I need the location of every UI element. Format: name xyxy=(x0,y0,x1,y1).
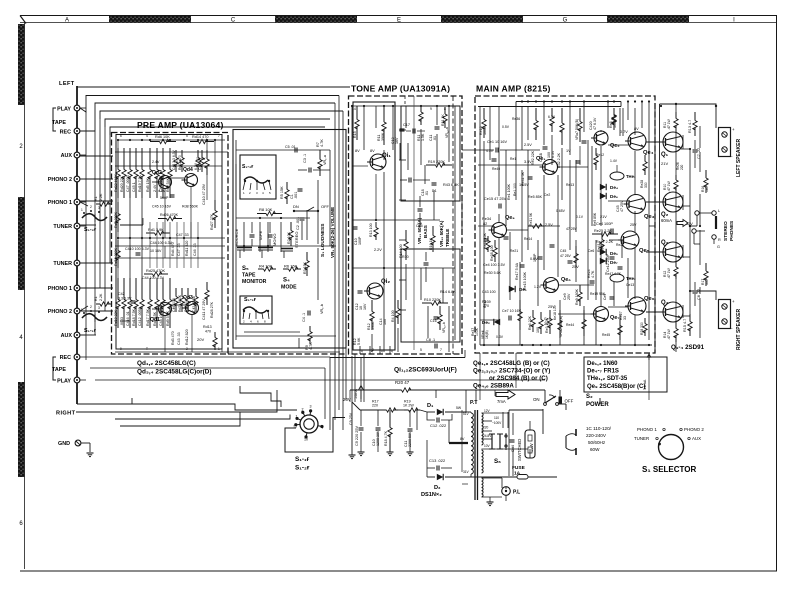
svg-text:Re40: Re40 xyxy=(492,167,500,171)
svg-text:OFF: OFF xyxy=(565,399,574,404)
preamp component C49 100P xyxy=(162,148,164,170)
svg-text:PHONO 2: PHONO 2 xyxy=(48,177,72,183)
wire bus top loop 5 xyxy=(105,119,330,127)
svg-text:+: + xyxy=(732,127,735,132)
svg-text:VR₁₂-b: VR₁₂-b xyxy=(442,322,446,333)
svg-text:4.7K: 4.7K xyxy=(591,270,595,278)
svg-text:R32 2.2K: R32 2.2K xyxy=(557,152,561,168)
svg-text:PHONES: PHONES xyxy=(729,220,735,241)
svg-text:Re17 5.6A: Re17 5.6A xyxy=(515,262,519,280)
svg-text:R6 15K: R6 15K xyxy=(284,264,298,269)
main junction dots xyxy=(521,100,523,102)
svg-text:DS1N×₂: DS1N×₂ xyxy=(421,492,442,498)
transformer secondary taps xyxy=(482,412,510,414)
bottom interconnect verticals xyxy=(329,357,331,430)
svg-text:Rd15 220K: Rd15 220K xyxy=(114,247,118,266)
rotary wafer S1 outer ring xyxy=(300,415,318,433)
svg-text:De₇: De₇ xyxy=(610,260,618,265)
svg-text:2.4V: 2.4V xyxy=(153,184,157,192)
svg-text:Re33: Re33 xyxy=(483,300,487,308)
main bottom rail xyxy=(480,344,652,346)
svg-text:Re36: Re36 xyxy=(512,117,520,121)
switch S6 contacts xyxy=(491,434,493,449)
svg-text:AUX: AUX xyxy=(692,436,701,441)
transistor Qd2 xyxy=(159,176,172,189)
wire to right speaker xyxy=(690,291,716,300)
svg-text:Rd3 470: Rd3 470 xyxy=(171,331,175,345)
svg-text:2.2V: 2.2V xyxy=(374,248,382,252)
svg-text:C42 .0058: C42 .0058 xyxy=(192,296,196,312)
right speaker terminal block xyxy=(719,300,731,329)
svg-text:C9 220 25V: C9 220 25V xyxy=(355,425,359,446)
svg-text:.47 1W: .47 1W xyxy=(667,118,671,130)
svg-text:.0033: .0033 xyxy=(120,317,124,326)
svg-text:1: 1 xyxy=(81,208,83,212)
svg-text:REC: REC xyxy=(60,130,71,136)
main amp scatter caps xyxy=(492,158,497,160)
switch S1-2f input wiper xyxy=(82,214,107,221)
switch S1-1f input wiper xyxy=(82,314,107,321)
input terminal AUX xyxy=(74,332,80,338)
left ruler hatch block 3 xyxy=(18,382,25,477)
svg-text:Qe₉: Qe₉ xyxy=(505,215,515,221)
svg-text:D₁: D₁ xyxy=(427,403,434,409)
main amp inner wires xyxy=(515,107,517,201)
input terminal PLAY xyxy=(74,105,80,111)
svg-text:De₄: De₄ xyxy=(610,185,618,190)
svg-text:0.3V: 0.3V xyxy=(496,335,504,339)
thermistor THe1 xyxy=(610,172,624,180)
svg-text:Ce2: Ce2 xyxy=(544,193,550,197)
transistor Qe6 xyxy=(628,297,646,315)
svg-text:R28 330: R28 330 xyxy=(640,322,644,335)
svg-text:REC: REC xyxy=(60,355,71,361)
svg-text:Qd2: Qd2 xyxy=(152,170,162,176)
svg-text:Re22: Re22 xyxy=(616,243,624,247)
switchbox extra parts xyxy=(290,222,292,231)
svg-text:or 2SC984 (B) or (C): or 2SC984 (B) or (C) xyxy=(489,375,548,382)
svg-text:3: 3 xyxy=(98,206,100,210)
svg-text:Qe₁,₈ 2SC458LG (B) or (C): Qe₁,₈ 2SC458LG (B) or (C) xyxy=(473,360,550,367)
input terminal REC xyxy=(74,354,80,360)
svg-text:Re1 100K: Re1 100K xyxy=(507,183,511,200)
svg-text:MODE: MODE xyxy=(281,285,297,291)
wire bus bottom loop 3 xyxy=(115,415,290,420)
svg-text:R4 10K: R4 10K xyxy=(259,264,273,269)
diode list box xyxy=(584,357,667,392)
svg-text:R5 15K: R5 15K xyxy=(280,186,284,199)
svg-text:C412 .0058: C412 .0058 xyxy=(138,307,142,326)
svg-text:TAPE: TAPE xyxy=(258,231,263,241)
svg-text:C47 .33: C47 .33 xyxy=(177,243,181,256)
svg-text:R1: R1 xyxy=(94,196,98,201)
svg-text:Qe₅: Qe₅ xyxy=(639,248,650,254)
svg-text:2.2K: 2.2K xyxy=(99,193,103,201)
input terminal PHONO 1 xyxy=(74,199,80,205)
svg-text:Q₃: Q₃ xyxy=(661,240,669,246)
svg-text:Rd21 680K: Rd21 680K xyxy=(178,294,182,312)
preamp lower component C416 .01 xyxy=(129,278,131,300)
svg-text:R10: R10 xyxy=(402,255,409,259)
main right rail xyxy=(648,102,650,341)
svg-text:2: 2 xyxy=(90,305,92,309)
tone right section extra parts xyxy=(408,178,410,183)
svg-text:8V: 8V xyxy=(355,149,360,153)
rotary wafer pins xyxy=(309,411,311,415)
MAIN AMP dashed box xyxy=(475,96,655,353)
svg-text:Qd₁,₂ 2SC458LG(C): Qd₁,₂ 2SC458LG(C) xyxy=(137,360,196,367)
svg-text:51V: 51V xyxy=(463,412,470,416)
resistor R14 4.7 bottom xyxy=(689,314,691,322)
selector knob circle xyxy=(659,435,684,460)
svg-text:Qi₁,₂2SC693UᴏrU(F): Qi₁,₂2SC693UᴏrU(F) xyxy=(394,367,457,374)
svg-text:R8 10K: R8 10K xyxy=(259,207,273,212)
svg-text:A: A xyxy=(65,17,69,23)
svg-text:1.2V: 1.2V xyxy=(534,285,542,289)
svg-text:R10 220K: R10 220K xyxy=(424,298,441,302)
svg-text:24.8V: 24.8V xyxy=(483,434,492,438)
svg-text:4: 4 xyxy=(371,350,373,354)
tone amp top rail xyxy=(352,105,460,107)
svg-text:Rd19 22K: Rd19 22K xyxy=(114,309,118,326)
svg-text:4.3V: 4.3V xyxy=(486,149,494,153)
svg-text:S₁ SELECTOR: S₁ SELECTOR xyxy=(642,465,697,474)
svg-text:STEREO: STEREO xyxy=(294,232,299,248)
transistor Qe7 xyxy=(594,307,609,322)
svg-text:220: 220 xyxy=(680,164,684,170)
svg-text:Re44: Re44 xyxy=(566,323,574,327)
tone mid dashed divider xyxy=(404,96,406,106)
svg-text:.001: .001 xyxy=(294,192,298,199)
svg-text:Ce9: Ce9 xyxy=(603,294,607,300)
PRE AMP dashed bottom extension xyxy=(228,353,346,355)
svg-text:Re31 5K: Re31 5K xyxy=(529,212,533,226)
svg-text:220-240V: 220-240V xyxy=(586,433,607,438)
pilot lamp wires xyxy=(482,477,503,479)
collector resistor R12 .47 1W xyxy=(675,262,677,267)
rotary wafer S1 inner ring xyxy=(304,419,314,429)
resistor R11 390K tone xyxy=(383,106,385,122)
svg-text:Qi₂: Qi₂ xyxy=(381,279,390,285)
left ruler hatch block 2 xyxy=(18,197,25,290)
svg-text:R20 47: R20 47 xyxy=(395,380,410,385)
main rail right edge wires xyxy=(654,104,656,352)
diode De7 xyxy=(600,258,606,264)
svg-text:R14 6.8K: R14 6.8K xyxy=(440,290,456,294)
power switch wires xyxy=(565,404,567,410)
tone inner wires xyxy=(352,219,440,221)
svg-text:S₁-₁ғ: S₁-₁ғ xyxy=(84,328,97,334)
tone dashed inner divider xyxy=(452,96,454,354)
transistor Qi1 xyxy=(370,154,386,170)
svg-text:12V: 12V xyxy=(484,409,491,413)
svg-text:S₁-₂ғ: S₁-₂ғ xyxy=(84,227,97,233)
svg-text:RIGHT SPEAKER: RIGHT SPEAKER xyxy=(736,308,742,350)
switch box inner wires xyxy=(236,245,336,247)
svg-text:C44 100 6.3V: C44 100 6.3V xyxy=(150,241,173,245)
svg-text:T: T xyxy=(146,347,148,351)
PRE AMP dashed box xyxy=(112,133,229,355)
svg-text:3.3 6.3V: 3.3 6.3V xyxy=(118,297,132,301)
svg-text:R15 4.7: R15 4.7 xyxy=(683,319,687,332)
svg-text:PHONO 1: PHONO 1 xyxy=(48,286,72,292)
wire bus bottom loop 2 xyxy=(76,390,277,412)
svg-text:50/60Hz: 50/60Hz xyxy=(588,440,606,445)
svg-text:Qe₂: Qe₂ xyxy=(610,143,620,149)
svg-text:TONE AMP (UA13091A): TONE AMP (UA13091A) xyxy=(351,84,450,94)
corner diagonal xyxy=(20,16,26,24)
svg-text:R43 6.8K: R43 6.8K xyxy=(443,183,459,187)
svg-text:4: 4 xyxy=(391,350,393,354)
svg-text:PLAY: PLAY xyxy=(57,379,71,385)
preamp lower component Rd18 7.5K xyxy=(135,278,137,300)
thermistor THe2 xyxy=(610,274,624,282)
svg-text:2.4V: 2.4V xyxy=(152,160,160,164)
svg-text:P.T: P.T xyxy=(470,400,478,406)
svg-text:1K(B): 1K(B) xyxy=(485,330,489,339)
svg-text:S₂: S₂ xyxy=(586,394,593,400)
svg-text:THe₁,₂ SDT-35: THe₁,₂ SDT-35 xyxy=(587,376,628,382)
svg-text:Re15 100K: Re15 100K xyxy=(523,271,527,290)
svg-text:1: 1 xyxy=(218,347,220,351)
input terminal TUNER xyxy=(74,223,80,229)
switch S1-2f contacts xyxy=(83,212,85,214)
svg-text:3: 3 xyxy=(98,306,100,310)
svg-text:25V: 25V xyxy=(630,223,637,227)
wire main amp to power xyxy=(479,353,481,400)
switch sub-box S1-2f xyxy=(240,155,276,199)
svg-text:−: − xyxy=(730,154,733,159)
tone IC pin stubs xyxy=(359,346,361,354)
input terminal PHONO 1 xyxy=(74,285,80,291)
switch loudness contacts xyxy=(294,210,318,212)
svg-text:THe₁: THe₁ xyxy=(626,174,636,179)
transformer core xyxy=(474,410,476,500)
svg-text:−: − xyxy=(730,326,733,331)
svg-text:OFF: OFF xyxy=(321,204,330,209)
preamp extra components top xyxy=(175,150,177,158)
svg-text:POWER: POWER xyxy=(586,402,609,408)
svg-text:VR₁ 50K(2-26) VOLUME: VR₁ 50K(2-26) VOLUME xyxy=(330,207,335,258)
svg-text:C45 1: C45 1 xyxy=(132,182,136,192)
svg-text:C17: C17 xyxy=(403,123,410,127)
tone amp extra verticals xyxy=(351,106,353,354)
svg-text:S₁-₁ғ: S₁-₁ғ xyxy=(244,297,257,303)
svg-text:5: 5 xyxy=(420,348,422,352)
svg-text:VR₁₁ 50K(A): VR₁₁ 50K(A) xyxy=(417,217,422,244)
svg-text:R18 4.7K: R18 4.7K xyxy=(384,430,388,446)
svg-text:+: + xyxy=(732,299,735,304)
svg-text:Rd14 470: Rd14 470 xyxy=(192,135,208,139)
svg-text:SWITCHED: SWITCHED xyxy=(517,439,522,461)
power supply extra wires xyxy=(461,410,463,472)
svg-text:Ce15 47 25V: Ce15 47 25V xyxy=(484,197,507,201)
svg-text:9: 9 xyxy=(430,107,432,111)
preamp lower component C412 .0058 xyxy=(141,278,143,300)
svg-text:Re13: Re13 xyxy=(566,183,574,187)
svg-text:R13 100: R13 100 xyxy=(369,223,373,237)
svg-text:VR₁₂-a: VR₁₂-a xyxy=(445,127,449,138)
AC plug xyxy=(565,436,567,448)
switch sub-box S1-1f xyxy=(240,296,272,324)
preamp lower component .0033 xyxy=(123,278,125,300)
wire bus bottom loop 1 xyxy=(77,398,132,404)
svg-text:Re12: Re12 xyxy=(596,153,604,157)
svg-text:.47 1W: .47 1W xyxy=(667,267,671,279)
svg-text:TUNER: TUNER xyxy=(634,436,649,441)
svg-text:VR₁-b: VR₁-b xyxy=(320,304,324,314)
svg-text:Rd6 10K: Rd6 10K xyxy=(155,135,170,139)
svg-text:TUNER: TUNER xyxy=(53,261,72,267)
svg-text:Re21: Re21 xyxy=(510,249,518,253)
svg-text:.01: .01 xyxy=(425,191,429,196)
svg-text:4.7K: 4.7K xyxy=(320,139,324,147)
svg-text:0.7V: 0.7V xyxy=(620,130,628,134)
svg-text:100K: 100K xyxy=(475,327,479,336)
svg-text:4: 4 xyxy=(381,350,383,354)
svg-text:330: 330 xyxy=(644,182,648,188)
main amp horizontal rails xyxy=(478,164,543,166)
svg-text:Rd19 7.5K: Rd19 7.5K xyxy=(138,174,142,192)
svg-text:E: E xyxy=(397,17,401,23)
svg-text:Re5 85K: Re5 85K xyxy=(593,212,597,226)
svg-text:G: G xyxy=(563,17,568,23)
svg-text:2: 2 xyxy=(186,347,188,351)
tone IC solid outline xyxy=(353,102,395,350)
svg-text:Qe₆: Qe₆ xyxy=(644,296,655,302)
svg-text:GND: GND xyxy=(58,441,70,447)
svg-text:S₄: S₄ xyxy=(283,278,290,284)
output stage rail wires xyxy=(654,106,656,352)
svg-text:Q₄: Q₄ xyxy=(661,300,669,306)
input terminal PLAY xyxy=(74,377,80,383)
transistor Qd3 xyxy=(186,302,199,315)
svg-text:Qe₃: Qe₃ xyxy=(644,214,655,220)
svg-text:S₁-₂ғ: S₁-₂ғ xyxy=(295,465,310,472)
collector resistor R10 .47 1W xyxy=(675,175,677,180)
svg-text:C43 .33: C43 .33 xyxy=(177,332,181,345)
svg-text:C13 .022: C13 .022 xyxy=(429,458,446,463)
transistor Qe5 xyxy=(621,231,639,249)
input terminal PHONO 2 xyxy=(74,176,80,182)
svg-text:Rd9 5.6K: Rd9 5.6K xyxy=(166,310,170,326)
input terminal TUNER xyxy=(74,260,80,266)
svg-text:C2 .001: C2 .001 xyxy=(296,217,300,230)
preamp lower component Rd9 5.6K xyxy=(169,278,171,300)
svg-text:8V: 8V xyxy=(370,149,375,153)
svg-text:C42: C42 xyxy=(118,292,125,296)
svg-text:220: 220 xyxy=(372,404,378,408)
border frame top line xyxy=(20,15,777,17)
tone inner box upper xyxy=(401,106,460,201)
svg-text:Rd18 7.5K: Rd18 7.5K xyxy=(132,308,136,326)
svg-text:DN: DN xyxy=(293,204,299,209)
svg-text:R1: R1 xyxy=(94,296,98,301)
svg-text:MONITOR: MONITOR xyxy=(242,279,267,285)
ground symbol at GND xyxy=(87,452,94,454)
resistor Rd15 220K lower xyxy=(117,240,119,251)
tone inner box lower xyxy=(401,249,460,342)
svg-text:De₆: De₆ xyxy=(610,194,618,199)
svg-text:Ce7 10 16V: Ce7 10 16V xyxy=(502,309,522,313)
input terminal REC xyxy=(74,128,80,134)
svg-text:R4 100: R4 100 xyxy=(391,310,395,322)
svg-text:De₄-₇ FR1S: De₄-₇ FR1S xyxy=(587,369,619,375)
wire tone to power verticals xyxy=(351,356,353,402)
svg-text:Re6 22K: Re6 22K xyxy=(528,315,532,330)
svg-text:Re45: Re45 xyxy=(602,333,610,337)
main amp extra verticals xyxy=(483,141,485,345)
svg-text:5W: 5W xyxy=(456,406,462,410)
output transistor Q3 xyxy=(663,242,683,262)
svg-text:De₁,₂ 1N60: De₁,₂ 1N60 xyxy=(587,361,618,367)
svg-text:3: 3 xyxy=(310,405,312,409)
svg-text:Rd26 470K: Rd26 470K xyxy=(160,213,179,217)
output transistor Q4 xyxy=(663,302,683,322)
svg-text:560P: 560P xyxy=(160,196,169,200)
svg-text:De₂: De₂ xyxy=(482,320,490,325)
svg-text:BASS: BASS xyxy=(423,225,428,238)
svg-text:Ce9: Ce9 xyxy=(544,317,551,321)
switch wipers source/tape xyxy=(237,247,252,249)
svg-text:Re2 22K: Re2 22K xyxy=(531,150,535,165)
svg-text:Qd4: Qd4 xyxy=(183,167,193,173)
resistor R13 4.7 top xyxy=(694,112,696,121)
svg-text:R: R xyxy=(718,238,721,242)
svg-text:R13 4.7: R13 4.7 xyxy=(688,120,692,133)
preamp lower component Rd2 15K xyxy=(156,278,158,300)
svg-text:0.5V: 0.5V xyxy=(502,125,510,129)
svg-text:0.65V: 0.65V xyxy=(556,209,566,213)
input terminal PHONO 2 xyxy=(74,308,80,314)
svg-text:6: 6 xyxy=(120,134,122,138)
tone junction dots xyxy=(351,105,353,107)
svg-text:De₅: De₅ xyxy=(610,251,618,256)
collector resistor R14 .47 1W xyxy=(675,322,677,329)
svg-text:5: 5 xyxy=(186,134,188,138)
preamp lower component Rd19 22K xyxy=(117,278,119,300)
svg-text:470: 470 xyxy=(205,330,211,334)
svg-text:Ce4 100P: Ce4 100P xyxy=(596,222,613,226)
svg-text:C411 47 29V: C411 47 29V xyxy=(202,299,206,320)
svg-text:MAIN AMP (8215): MAIN AMP (8215) xyxy=(476,84,551,94)
svg-text:RIGHT: RIGHT xyxy=(56,411,76,417)
border frame bottom line xyxy=(20,570,777,572)
svg-text:2: 2 xyxy=(90,205,92,209)
border frame top inner line xyxy=(20,22,777,24)
svg-text:100P: 100P xyxy=(358,236,362,245)
svg-text:Ce4 100 3.5V: Ce4 100 3.5V xyxy=(483,263,506,267)
svg-text:Qe₂,₃,₅,₇ 2SC734-(O) or (Y): Qe₂,₃,₅,₇ 2SC734-(O) or (Y) xyxy=(473,368,550,375)
preamp component Rd20 22K xyxy=(123,148,125,170)
svg-text:Rd11 820: Rd11 820 xyxy=(185,241,189,256)
svg-text:Re14: Re14 xyxy=(524,237,532,241)
svg-text:Re34: Re34 xyxy=(482,217,491,221)
wire bus bottom loop 4 xyxy=(120,412,240,426)
output transistor Q2 xyxy=(663,192,683,212)
svg-text:S₁-₂ғ: S₁-₂ғ xyxy=(242,164,253,170)
svg-text:25V: 25V xyxy=(567,293,571,300)
switch S1-2f mid wiper xyxy=(244,177,268,183)
svg-text:Ce13: Ce13 xyxy=(626,283,634,287)
svg-text:1C 110-120/: 1C 110-120/ xyxy=(586,426,612,431)
bus verticals right of preamp xyxy=(334,103,336,420)
left ruler band line xyxy=(24,23,26,570)
preamp component Rd22 660K xyxy=(117,148,119,170)
svg-text:10 16V: 10 16V xyxy=(150,249,162,253)
wire bus top loop 4 xyxy=(100,111,343,119)
stereo phones jack xyxy=(695,211,699,215)
